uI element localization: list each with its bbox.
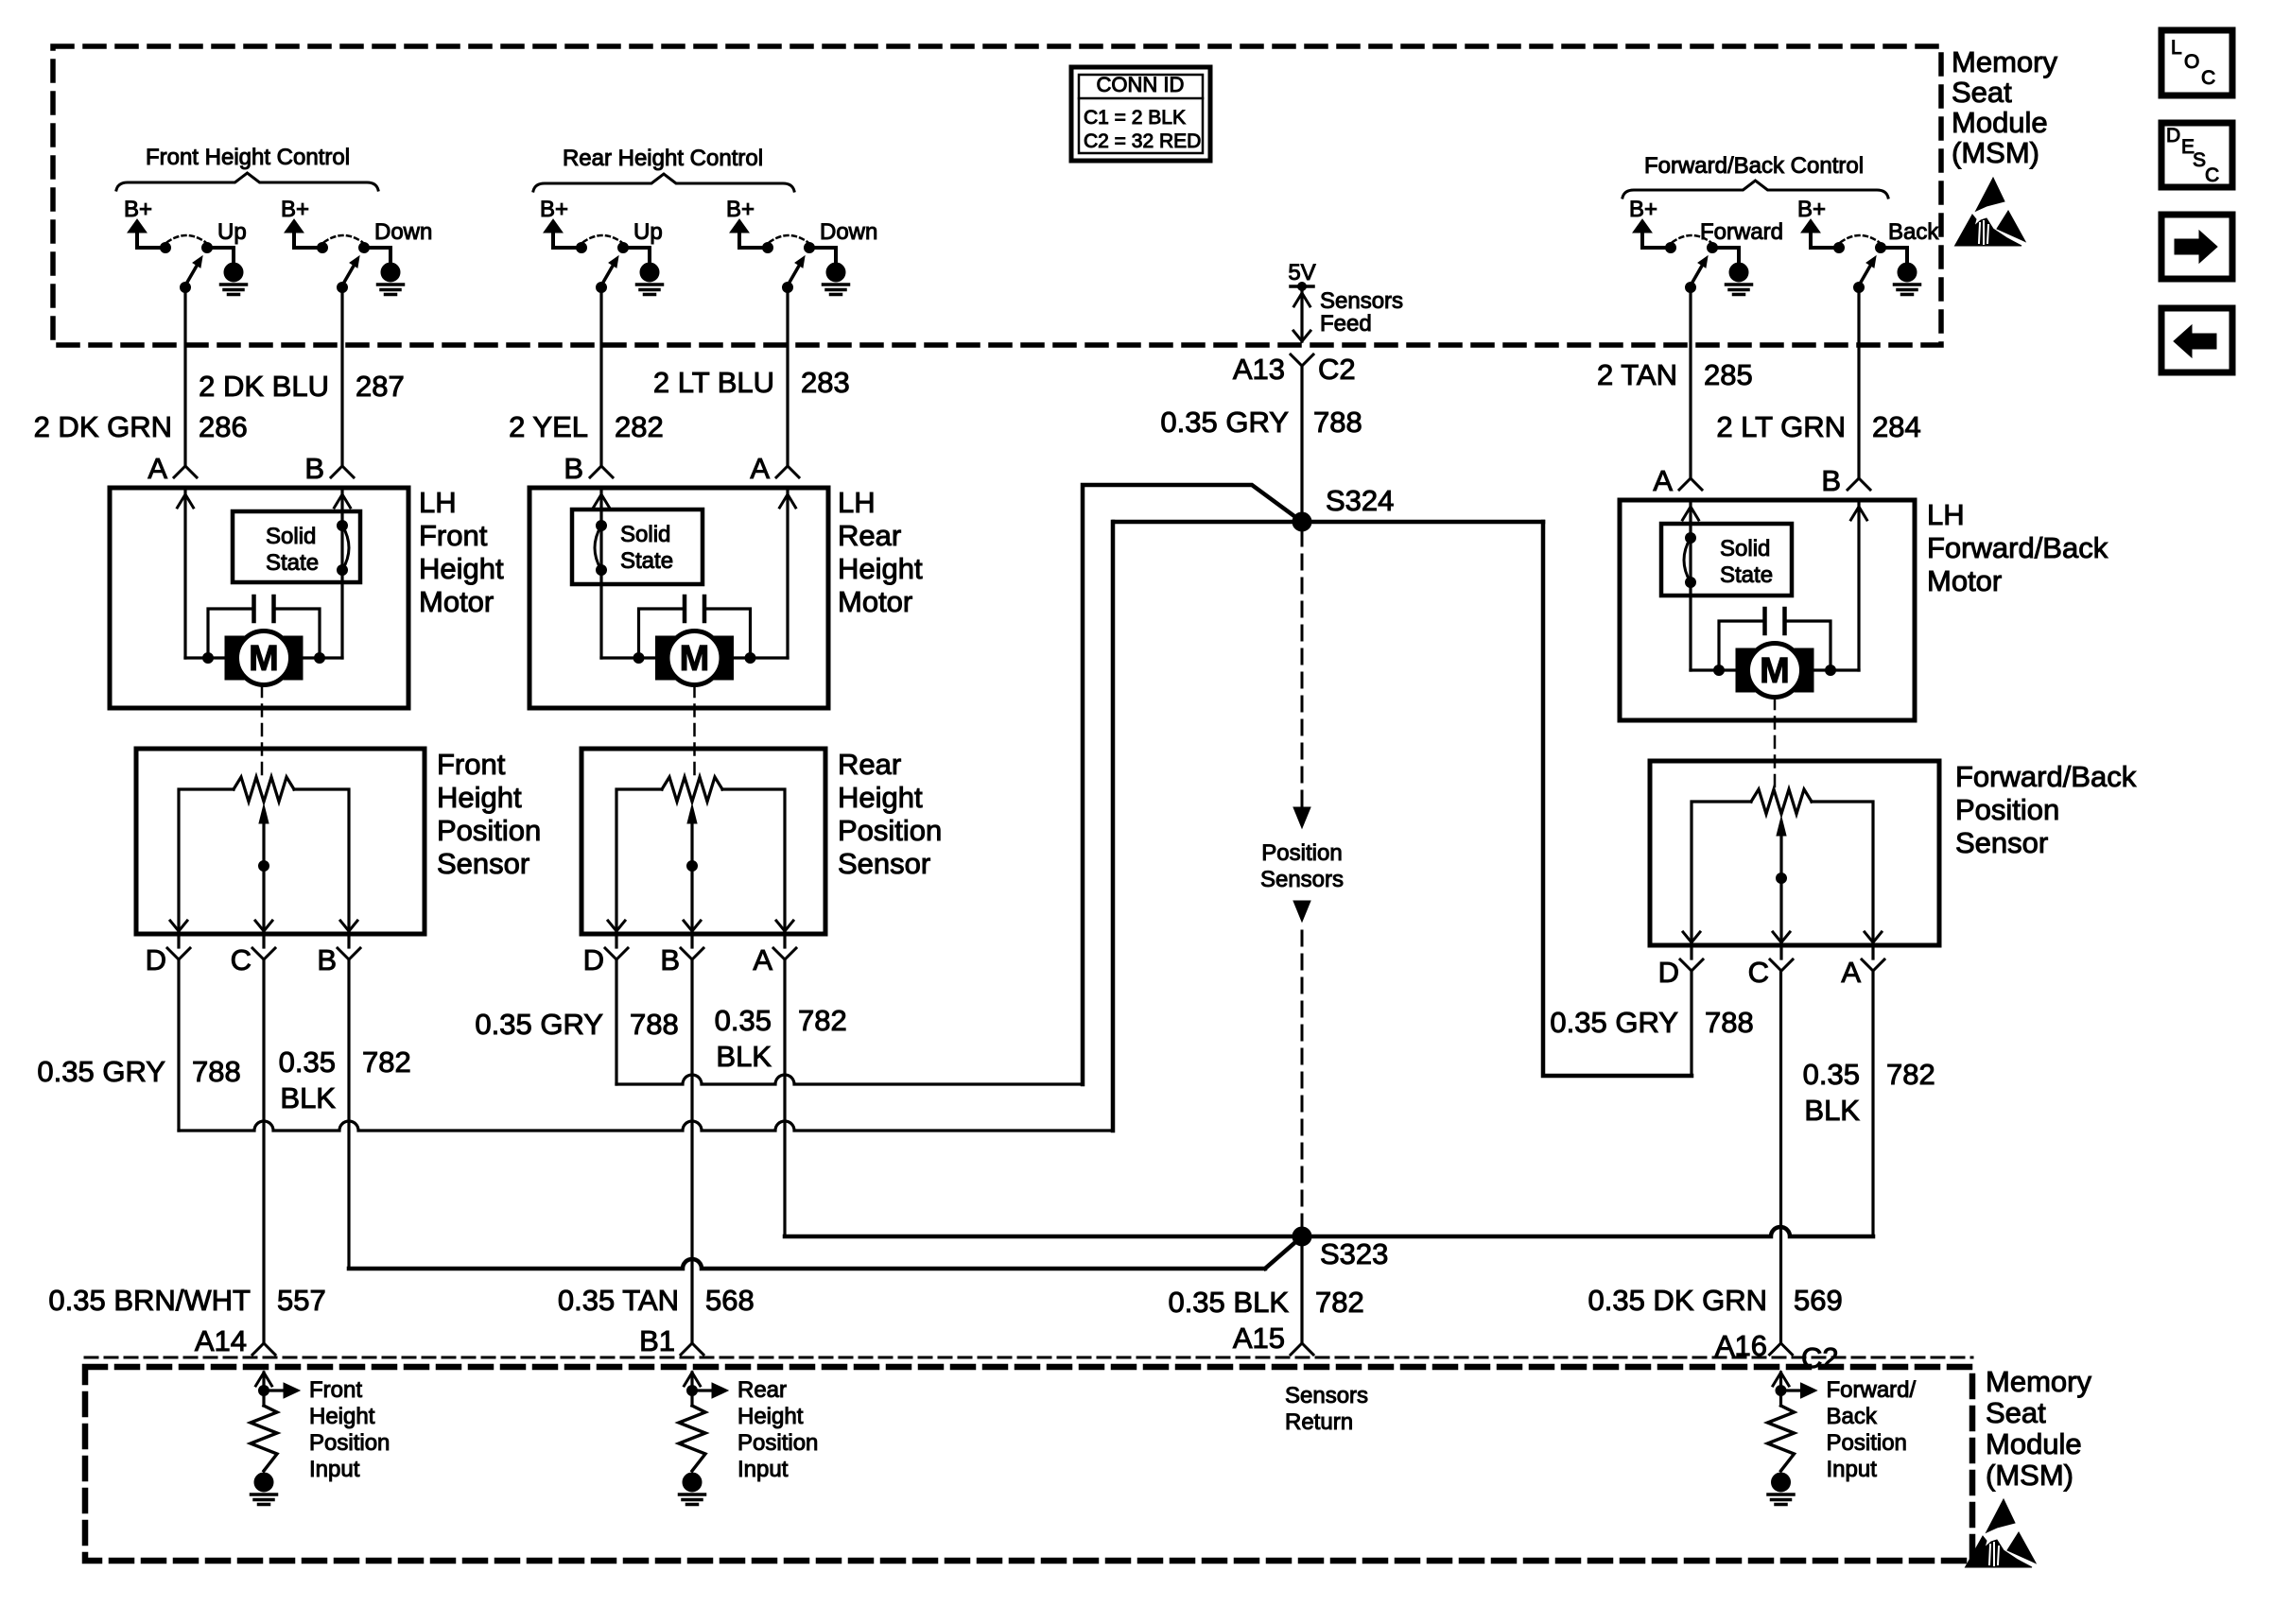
internal wiring of LH Front Height Motor [178,488,351,664]
svg-text:Forward/Back Control: Forward/Back Control [1644,153,1864,179]
svg-text:A13: A13 [1233,353,1285,386]
Rear Height Position Sensor box [581,748,942,934]
svg-text:C: C [1748,956,1769,989]
svg-text:Position: Position [1955,793,2059,826]
svg-text:Input: Input [737,1457,789,1482]
svg-text:Forward/Back: Forward/Back [1927,531,2108,564]
Sensors Return label (MSM internal) [1285,1383,1368,1435]
potentiometer resistor in Forward/Back Position Sensor [1692,789,1873,945]
svg-text:Solid: Solid [1720,536,1770,561]
svg-text:2 YEL: 2 YEL [509,410,588,443]
motor M symbol in LH Front Height Motor [225,631,303,685]
svg-text:Height: Height [419,552,504,585]
svg-text:Position: Position [1827,1430,1907,1456]
svg-text:Height: Height [309,1404,375,1429]
svg-text:C2: C2 [1801,1341,1839,1374]
pin letters of Rear Height Position Sensor [583,943,773,976]
potentiometer resistor in Rear Height Position Sensor [616,777,785,934]
svg-text:Memory: Memory [1986,1365,2091,1398]
svg-text:B+: B+ [124,197,152,222]
switch SW3 Rear Height Up [577,219,663,293]
splice S324 [1293,484,1394,531]
S323 trunk main line (rear A to F/B A) [785,959,1873,1236]
ESD sensitive device symbol bottom [1966,1499,2037,1567]
svg-text:D: D [1658,956,1679,989]
B+ power terminal for SW6 Back [1797,197,1835,248]
svg-text:Input: Input [1827,1457,1878,1482]
svg-text:Height: Height [737,1404,804,1429]
wire 782 0.35 BLK S323 to A15 [1168,1246,1363,1355]
svg-text:Forward: Forward [1700,219,1783,245]
svg-text:A: A [750,452,770,485]
svg-text:Position: Position [838,814,942,847]
svg-text:5V: 5V [1288,260,1315,285]
svg-text:M: M [249,639,279,679]
ESD sensitive device symbol top [1955,178,2026,246]
svg-text:282: 282 [615,410,664,443]
svg-text:0.35 GRY: 0.35 GRY [37,1055,165,1088]
svg-text:Rear: Rear [838,519,901,552]
svg-text:0.35 TAN: 0.35 TAN [558,1284,679,1317]
mechanical link front motor to front sensor (dashed) [261,685,264,781]
suppression capacitor in LH Rear Height Motor [639,596,751,658]
ground symbol for SW6 Back [1895,263,1920,295]
svg-text:0.35 GRY: 0.35 GRY [1160,406,1289,439]
svg-text:Height: Height [838,781,923,814]
svg-text:B+: B+ [540,197,568,222]
svg-text:B+: B+ [1797,197,1826,222]
svg-text:S: S [2193,149,2206,171]
svg-text:Module: Module [1952,106,2048,139]
S323 lower branch (front B) [349,959,1302,1269]
wire 282 2 YEL (Rear Up to motor B) [509,287,664,485]
output arrows in Forward/Back Position Sensor [1683,932,1882,942]
right arrow icon box [2161,215,2232,279]
Memory Seat Module top dashed box [53,46,1941,345]
svg-text:A15: A15 [1233,1322,1285,1355]
svg-text:2 DK GRN: 2 DK GRN [34,410,172,443]
label 0.35 BLK 782 front [279,1045,411,1114]
svg-text:B: B [660,943,680,976]
left arrow icon box [2161,308,2232,372]
motor M symbol in LH Rear Height Motor [656,631,734,685]
svg-text:S324: S324 [1326,484,1394,517]
svg-text:Motor: Motor [1927,564,2002,597]
svg-text:B: B [564,452,583,485]
svg-text:Seat: Seat [1986,1396,2046,1429]
svg-text:Up: Up [633,219,663,245]
connector chevrons below Rear Height Position Sensor [605,934,796,959]
label 0.35 BLK 782 f/b [1803,1058,1935,1127]
svg-text:Sensors: Sensors [1285,1383,1368,1408]
svg-text:B+: B+ [281,197,309,222]
svg-text:Memory: Memory [1952,45,2057,78]
svg-text:BLK: BLK [280,1081,336,1114]
pin letters of Forward/Back Position Sensor [1658,956,1862,989]
switch SW2 Front Height Down [318,219,433,293]
svg-text:Rear: Rear [737,1377,787,1403]
svg-text:Position: Position [437,814,541,847]
svg-text:B+: B+ [1629,197,1657,222]
ground symbol for Forward/Back Position Input [1768,1473,1794,1505]
svg-text:Back: Back [1827,1404,1878,1429]
svg-text:LH: LH [1927,498,1965,531]
svg-text:283: 283 [801,366,850,399]
label 0.35 GRY 788 rear [475,1008,678,1041]
svg-text:Front Height Control: Front Height Control [146,145,350,170]
svg-text:Motor: Motor [419,585,494,618]
S324 trunk main line [1114,520,1543,525]
LH Rear Height Motor box [529,486,923,708]
svg-text:(MSM): (MSM) [1952,136,2039,169]
svg-text:A: A [753,943,772,976]
DESC icon box [2161,123,2232,187]
svg-text:A: A [1841,956,1861,989]
connector A13 C2 [1233,353,1356,386]
S324 upper branch (rear D) [1083,485,1302,1084]
svg-text:568: 568 [705,1284,755,1317]
ground symbol for SW4 Rear Height Down [824,263,849,295]
svg-text:285: 285 [1704,358,1753,391]
svg-text:BLK: BLK [716,1040,772,1073]
connector chevrons below Forward/Back Position Sensor [1680,945,1884,971]
Forward/Back Position Sensor box [1650,760,2137,945]
LOC icon box [2161,30,2232,95]
switch SW5 Forward [1666,219,1784,293]
svg-text:286: 286 [199,410,248,443]
potentiometer resistor in Front Height Position Sensor [179,777,349,934]
label 0.35 BLK 782 rear [715,1004,847,1073]
ground symbol for SW5 Forward [1726,263,1752,295]
svg-text:State: State [620,548,673,574]
suppression capacitor in LH Front Height Motor [208,596,320,658]
svg-text:Rear Height Control: Rear Height Control [563,146,763,171]
svg-text:2 TAN: 2 TAN [1597,358,1677,391]
svg-text:Motor: Motor [838,585,912,618]
wire 285 2 TAN (Forward to motor A) [1597,287,1753,497]
pin letters of Front Height Position Sensor [146,943,337,976]
svg-text:0.35 GRY: 0.35 GRY [1550,1006,1678,1039]
S324 left riser (front D) [1111,522,1116,1131]
svg-text:Sensors: Sensors [1260,867,1344,892]
Memory Seat Module (MSM) label top right [1952,45,2057,169]
svg-text:C: C [2205,164,2219,186]
svg-text:C: C [2201,67,2215,89]
svg-text:0.35 DK GRN: 0.35 DK GRN [1588,1284,1767,1317]
svg-text:D: D [583,943,604,976]
solid state relay inside LH Rear Height Motor [572,510,703,584]
S324 right branch to F/B sensor D [1543,522,1692,1076]
svg-text:Sensor: Sensor [1955,826,2048,859]
connector chevrons below Front Height Position Sensor [167,934,360,959]
svg-text:782: 782 [1315,1286,1364,1319]
switch SW6 Back [1834,219,1940,293]
Forward/Back Position Input resistor input (MSM internal) [1768,1373,1817,1471]
svg-text:0.35: 0.35 [279,1045,336,1079]
svg-text:0.35 GRY: 0.35 GRY [475,1008,603,1041]
svg-text:C: C [231,943,252,976]
internal wiring of LH Forward/Back Motor [1683,500,1867,676]
svg-text:782: 782 [362,1045,411,1079]
svg-text:Up: Up [217,219,247,245]
svg-text:A: A [1653,464,1673,497]
svg-text:Return: Return [1285,1409,1353,1435]
svg-text:788: 788 [1705,1006,1754,1039]
svg-text:A: A [147,452,167,485]
svg-text:D: D [2166,125,2180,147]
wire 788 rear sensor D to S324 [616,959,1083,1084]
svg-text:Feed: Feed [1320,311,1372,337]
Rear Height Position Input resistor input (MSM internal) [679,1373,728,1471]
label Front Height Position Input [309,1377,390,1482]
Front Height Position Input resistor input (MSM internal) [251,1373,300,1471]
wire 569 0.35 DK GRN f/b C to A16 [1588,971,1842,1374]
wire 788 0.35 GRY (A13 to S324) [1160,366,1362,522]
svg-text:Position: Position [309,1430,390,1456]
ground symbol for SW3 Rear Height Up [637,263,663,295]
svg-text:Forward/: Forward/ [1827,1377,1917,1403]
svg-text:D: D [146,943,166,976]
svg-text:2 LT BLU: 2 LT BLU [653,366,774,399]
svg-text:Module: Module [1986,1427,2082,1460]
svg-text:A14: A14 [195,1324,247,1357]
switch SW4 Rear Height Down [763,219,878,293]
svg-text:A16: A16 [1715,1329,1767,1362]
B+ power terminal for SW2 Front Height Down [281,197,319,248]
motor M symbol in LH Forward/Back Motor [1736,644,1813,698]
label 0.35 GRY 788 f/b [1550,1006,1753,1039]
svg-text:B: B [317,943,337,976]
svg-text:(MSM): (MSM) [1986,1459,2073,1492]
wire 284 2 LT GRN (Back to motor B) [1716,287,1920,497]
svg-text:Forward/Back: Forward/Back [1955,760,2137,793]
Position Sensors dashed indicator line [1260,531,1344,1227]
svg-text:Front: Front [419,519,488,552]
solid state relay inside LH Front Height Motor [233,511,360,582]
B+ power terminal for SW3 Rear Height Up [540,197,578,248]
svg-text:Height: Height [437,781,522,814]
suppression capacitor in LH Forward/Back Motor [1719,609,1831,670]
Front Height Position Sensor box [136,748,541,934]
ground symbol for Rear Height Position Input [680,1473,705,1505]
svg-text:Rear: Rear [838,748,901,781]
wire 287 2 DK BLU (Front Down to motor B) [199,287,405,485]
svg-text:Down: Down [374,219,432,245]
output arrows in Rear Height Position Sensor [608,921,793,931]
svg-text:Position: Position [737,1430,818,1456]
wire 568 0.35 TAN rear B to B1 [558,959,755,1357]
svg-text:0.35 BRN/WHT: 0.35 BRN/WHT [48,1284,251,1317]
wiper arm in Forward/Back Position Sensor [1777,817,1787,945]
svg-text:782: 782 [1886,1058,1935,1091]
svg-text:2 DK BLU: 2 DK BLU [199,370,329,403]
Memory Seat Module (MSM) label bottom right [1986,1365,2091,1492]
svg-text:788: 788 [1313,406,1362,439]
wiper arm in Front Height Position Sensor [259,804,269,934]
svg-text:Solid: Solid [266,524,316,549]
svg-text:Front: Front [309,1377,362,1403]
splice S323 [1293,1227,1388,1270]
svg-text:Down: Down [820,219,877,245]
svg-text:Sensor: Sensor [838,847,930,880]
svg-text:B: B [1821,464,1841,497]
svg-text:Sensor: Sensor [437,847,529,880]
Memory Seat Module bottom dashed box [85,1357,1972,1561]
svg-text:LH: LH [419,486,457,519]
svg-text:Back: Back [1888,219,1939,245]
svg-text:0.35: 0.35 [1803,1058,1860,1091]
svg-text:782: 782 [798,1004,847,1037]
svg-text:557: 557 [277,1284,326,1317]
label 0.35 GRY 788 front [37,1055,240,1088]
mechanical link rear motor to rear sensor (dashed) [693,685,696,781]
switch SW1 Front Height Up [161,219,247,293]
CONN ID table [1071,67,1210,161]
svg-text:0.35 BLK: 0.35 BLK [1168,1286,1289,1319]
Rear Height Control title and brace [533,146,794,191]
svg-text:B: B [304,452,324,485]
svg-text:CONN ID: CONN ID [1097,73,1185,96]
svg-text:L: L [2171,37,2182,59]
mechanical link fwd/back motor to sensor (dashed) [1774,698,1777,793]
wire 788 F/B sensor D riser [1690,971,1692,1076]
svg-text:M: M [680,639,710,679]
internal wiring of LH Rear Height Motor [594,488,796,664]
svg-text:State: State [1720,562,1773,588]
svg-text:C2: C2 [1318,353,1356,386]
LH Front Height Motor box [110,486,504,708]
solid state relay inside LH Forward/Back Motor [1661,524,1792,596]
Front Height Control title and brace [116,145,378,190]
svg-text:Sensors: Sensors [1320,288,1403,314]
svg-text:Input: Input [309,1457,360,1482]
svg-text:Height: Height [838,552,923,585]
svg-text:BLK: BLK [1804,1094,1860,1127]
label Rear Height Position Input [737,1377,818,1482]
wiper arm in Rear Height Position Sensor [687,804,698,934]
wire 788 front sensor D to S324 [179,959,1113,1131]
ground symbol for SW1 Front Height Up [221,263,247,295]
svg-text:788: 788 [192,1055,241,1088]
ground symbol for SW2 Front Height Down [378,263,404,295]
wire 557 0.35 BRN/WHT front C to A14 [48,959,325,1357]
svg-text:O: O [2184,51,2199,73]
output arrows in Front Height Position Sensor [170,921,357,931]
ground symbol for Front Height Position Input [252,1473,277,1505]
svg-text:287: 287 [356,370,405,403]
svg-text:Front: Front [437,748,506,781]
svg-text:M: M [1760,651,1790,691]
svg-text:0.35: 0.35 [715,1004,772,1037]
svg-text:B+: B+ [726,197,755,222]
wire 286 2 DK GRN (Front Up to motor A) [34,287,248,485]
svg-text:788: 788 [630,1008,679,1041]
svg-text:LH: LH [838,486,876,519]
B+ power terminal for SW1 Front Height Up [124,197,162,248]
svg-text:S323: S323 [1320,1237,1388,1270]
svg-text:Solid: Solid [620,522,670,547]
LH Forward/Back Motor box [1620,498,2108,720]
svg-text:Seat: Seat [1952,76,2012,109]
Forward/Back Control title and brace [1622,153,1888,198]
label Forward/Back Position Input [1827,1377,1917,1482]
5V sensors feed terminal [1288,260,1403,341]
svg-text:2 LT GRN: 2 LT GRN [1716,410,1846,443]
B+ power terminal for SW4 Rear Height Down [726,197,764,248]
svg-text:C1 = 2 BLK: C1 = 2 BLK [1084,107,1186,129]
svg-text:B1: B1 [639,1324,675,1357]
B+ power terminal for SW5 Forward [1629,197,1667,248]
svg-text:Position: Position [1261,840,1342,866]
svg-text:State: State [266,550,319,576]
svg-text:284: 284 [1872,410,1921,443]
wire 283 2 LT BLU (Rear Down to motor A) [653,287,850,485]
svg-text:569: 569 [1794,1284,1843,1317]
svg-text:C2 = 32 RED: C2 = 32 RED [1084,130,1201,152]
